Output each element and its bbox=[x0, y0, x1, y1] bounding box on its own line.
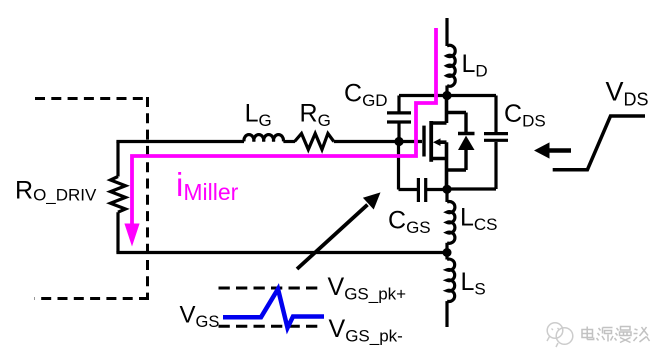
transistor Q1 drain stub bbox=[431, 96, 446, 124]
transistor Q1 body arrow bbox=[438, 142, 447, 158]
driver dashed box bbox=[35, 97, 150, 299]
transistor Q1 source stub bbox=[431, 159, 446, 190]
wire: source to L_CS bbox=[445, 189, 448, 202]
capacitor C_GD bbox=[387, 96, 411, 142]
svg-text:RG: RG bbox=[300, 100, 331, 131]
inductor L_CS bbox=[447, 201, 455, 243]
inductor L_G bbox=[244, 135, 284, 142]
resistor R_O_DRIV bbox=[111, 177, 126, 213]
svg-text:CGS: CGS bbox=[388, 207, 431, 238]
V_GS waveform dashed bottom bbox=[219, 325, 323, 328]
node drain bbox=[442, 91, 451, 100]
resistor R_G bbox=[295, 134, 334, 150]
transistor Q1 gate bar bbox=[422, 126, 425, 157]
wire: driver left vertical bottom bbox=[116, 212, 119, 252]
capacitor C_GS bbox=[399, 142, 448, 203]
svg-text:CGD: CGD bbox=[344, 80, 388, 111]
wire: L_CS to node bbox=[445, 243, 448, 253]
svg-text:VGS_pk-: VGS_pk- bbox=[329, 315, 403, 346]
svg-text:VDS: VDS bbox=[606, 77, 649, 110]
capacitor C_DS bbox=[447, 96, 508, 190]
i_Miller arrowhead bbox=[124, 224, 139, 247]
V_DS arrow bbox=[549, 148, 571, 153]
wire: node to L_S bbox=[445, 253, 448, 260]
wire: top horizontal (C_GD corner to C_DS corner) bbox=[399, 94, 496, 97]
svg-text:LG: LG bbox=[245, 100, 272, 131]
svg-text:LD: LD bbox=[462, 50, 488, 81]
node kelvin bbox=[443, 248, 452, 257]
body diode D1 bbox=[447, 113, 467, 171]
wire: L_S bottom stub bbox=[445, 301, 448, 327]
svg-text:VGS: VGS bbox=[180, 302, 220, 332]
watermark logo bbox=[547, 323, 573, 347]
svg-text:iMiller: iMiller bbox=[176, 166, 239, 205]
svg-text:VGS_pk+: VGS_pk+ bbox=[328, 273, 407, 304]
wire: top drain stub bbox=[445, 18, 448, 46]
V_GS waveform dashed top bbox=[219, 287, 323, 290]
wire: driver left vertical top bbox=[116, 142, 119, 177]
node source bbox=[442, 185, 451, 194]
wire: between L_G and R_G bbox=[283, 140, 295, 143]
svg-text:CDS: CDS bbox=[504, 100, 546, 131]
i_Miller current path (magenta) bbox=[132, 28, 436, 225]
transistor Q1 channel bar bbox=[429, 121, 433, 162]
watermark text 电源漫谈 (approximated strokes) bbox=[582, 327, 650, 343]
wire: R_G to gate bbox=[334, 140, 422, 143]
wire: bottom source return bbox=[116, 251, 447, 254]
svg-text:LCS: LCS bbox=[460, 204, 498, 235]
inductor L_D bbox=[447, 45, 455, 86]
inductor L_S bbox=[447, 259, 455, 301]
annotation arrow to gate bbox=[297, 205, 368, 269]
annotation arrowhead bbox=[363, 192, 381, 209]
wire: L_D to drain node bbox=[445, 86, 448, 96]
V_DS waveform bbox=[553, 116, 645, 170]
node gate bbox=[394, 137, 403, 146]
V_GS waveform blue trace bbox=[223, 289, 324, 328]
svg-text:RO_DRIV: RO_DRIV bbox=[15, 177, 97, 205]
wire: gate top horizontal (left of L_G) bbox=[116, 140, 244, 143]
svg-text:LS: LS bbox=[461, 268, 486, 299]
